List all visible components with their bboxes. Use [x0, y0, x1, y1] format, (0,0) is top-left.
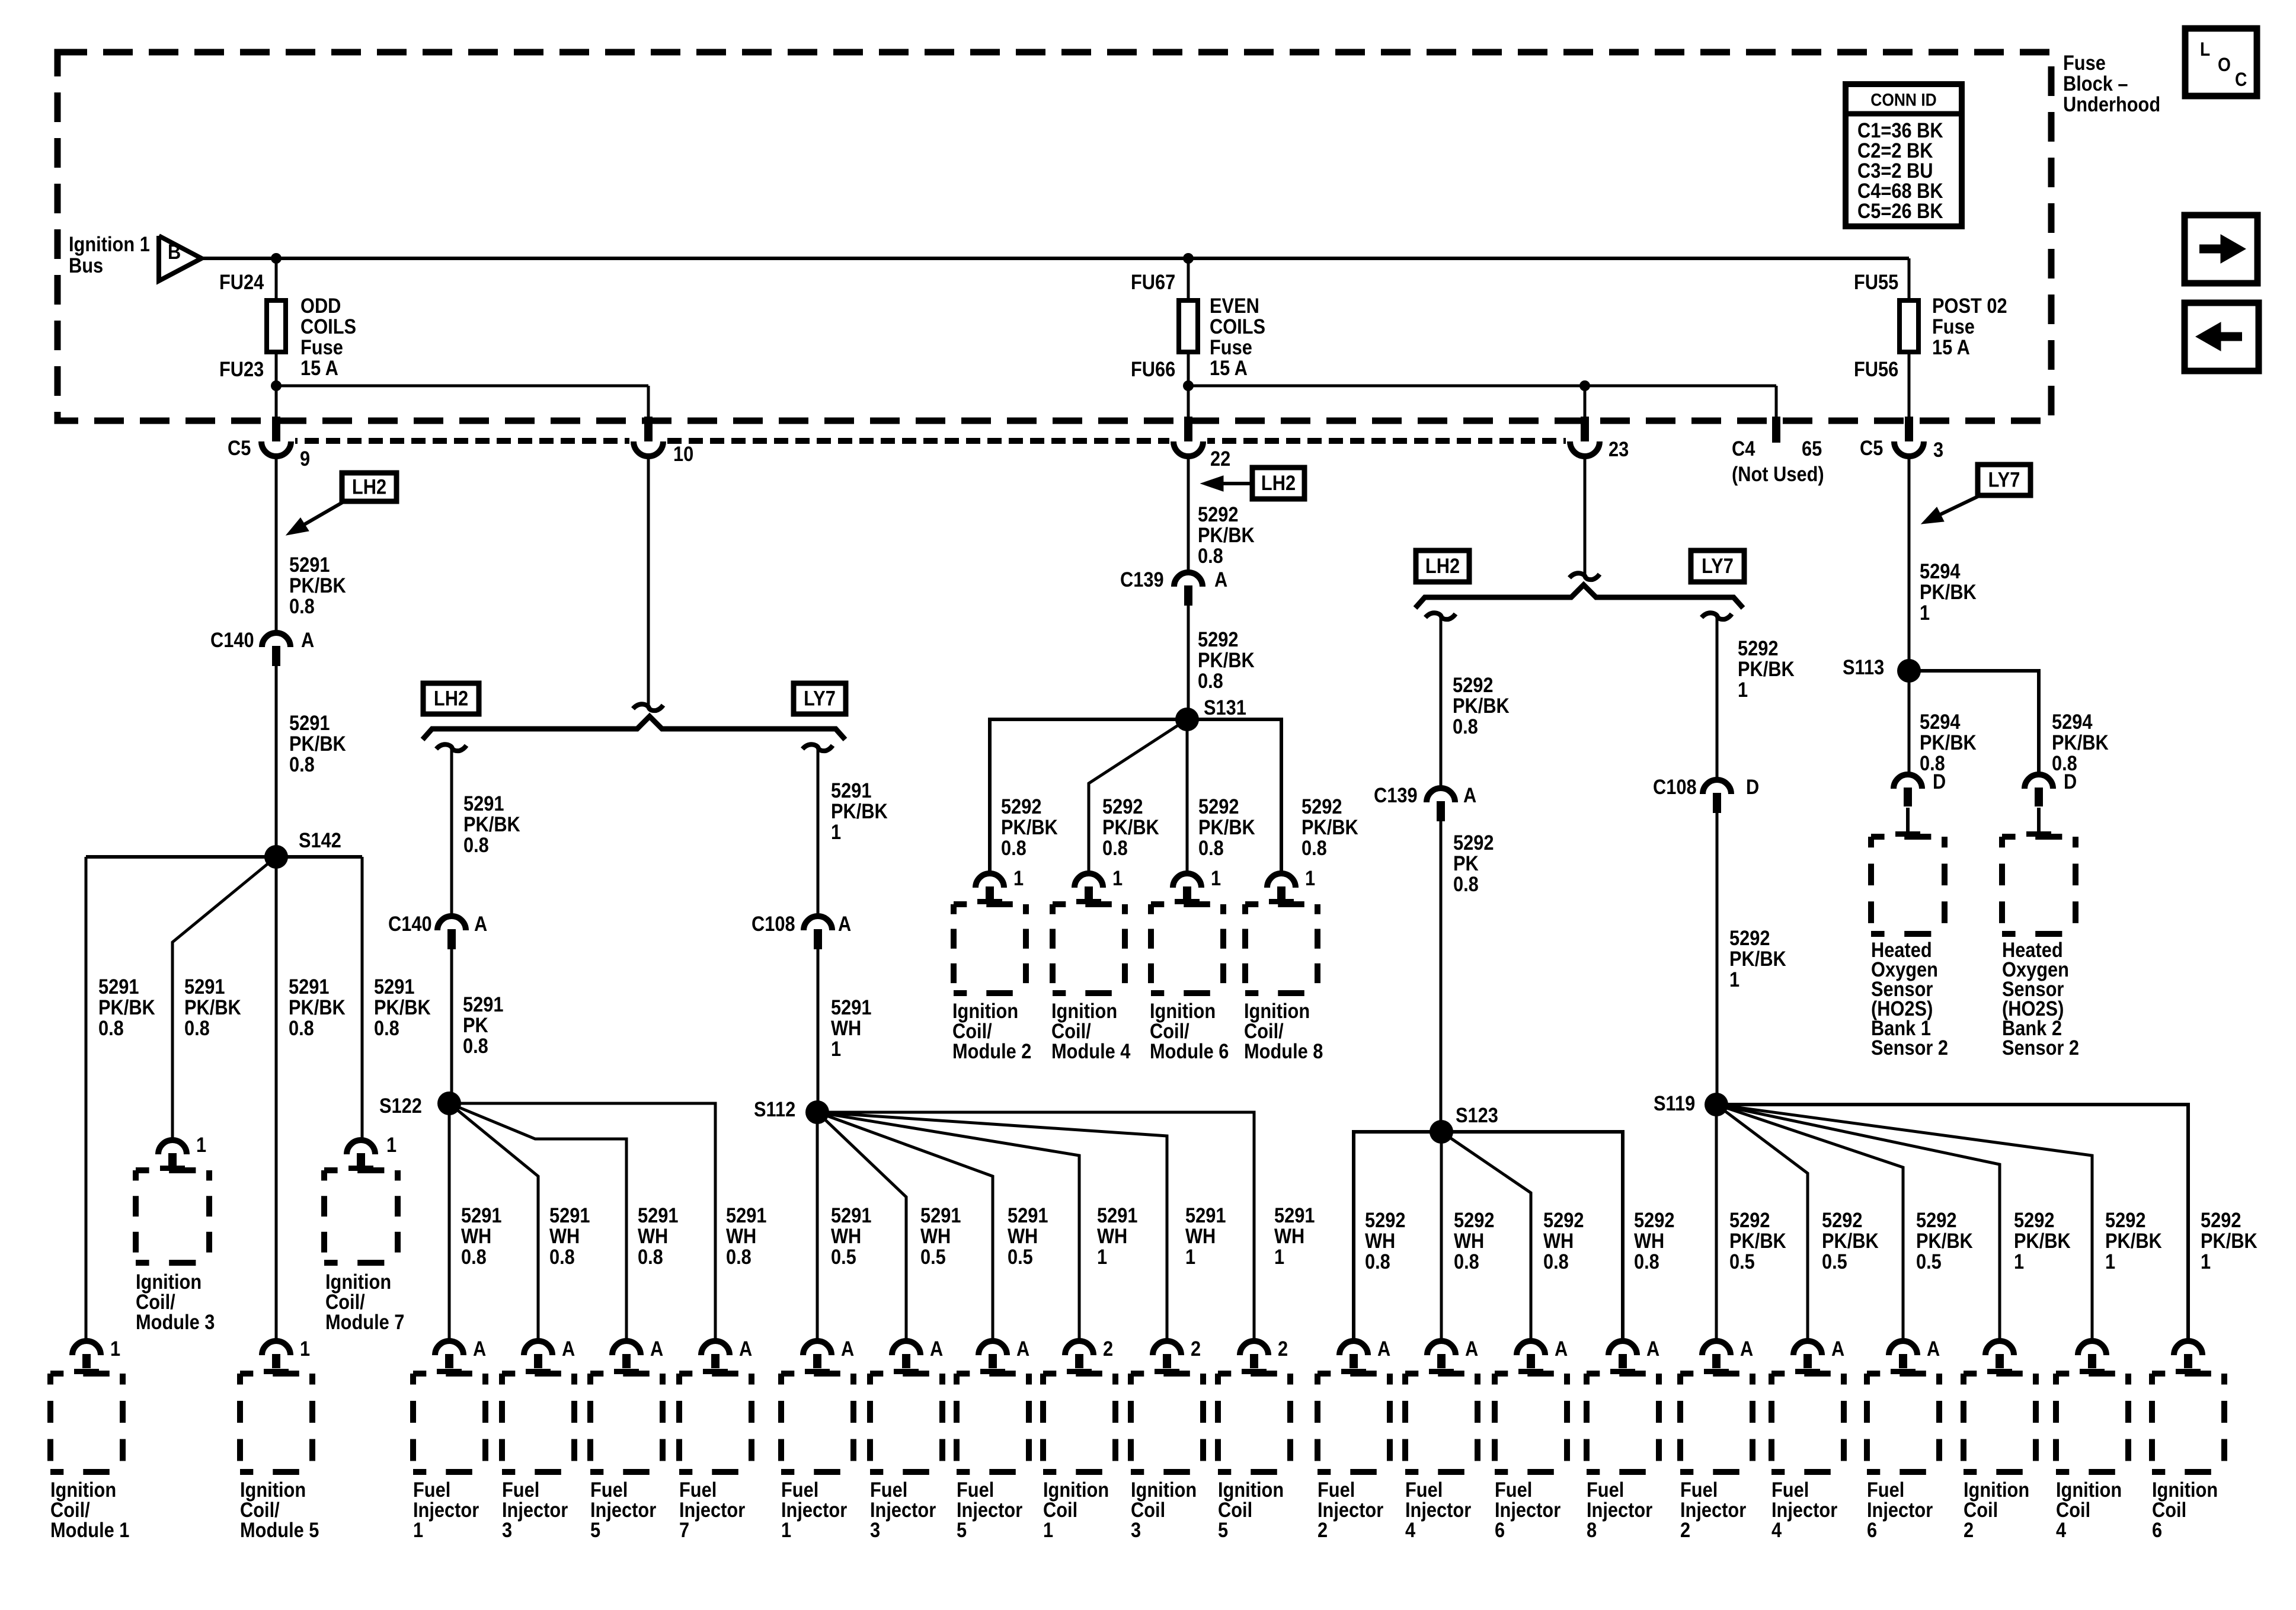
svg-text:1: 1	[1274, 1245, 1284, 1268]
svg-text:1: 1	[110, 1337, 120, 1360]
svg-text:5292: 5292	[2014, 1208, 2054, 1231]
fuse ODD COILS 15A	[267, 300, 286, 352]
svg-text:1: 1	[1097, 1245, 1107, 1268]
svg-text:5292: 5292	[1729, 926, 1770, 949]
wire 5294 PK/BK pin3 to S113	[1908, 456, 1911, 671]
svg-text:6: 6	[1495, 1518, 1505, 1541]
svg-text:C140: C140	[210, 628, 254, 651]
connector Ignition Coil/Module 2 pin 1	[976, 873, 1004, 888]
svg-text:7: 7	[679, 1518, 689, 1541]
box Fuel Injector 5	[957, 1371, 1029, 1377]
svg-text:PK/BK: PK/BK	[1920, 731, 1977, 754]
svg-text:WH: WH	[1543, 1229, 1574, 1252]
connector Fuel Injector 5 pin A	[978, 1341, 1007, 1355]
wires S123 fanout to fuel injectors 2,4,6,8	[1354, 1132, 1441, 1341]
connector Fuel Injector 8 pin A	[1609, 1341, 1637, 1355]
break curl LH2 branch start	[1425, 613, 1456, 619]
svg-text:0.8: 0.8	[289, 1016, 314, 1039]
svg-text:23: 23	[1609, 437, 1629, 460]
svg-text:65: 65	[1802, 437, 1822, 460]
svg-text:0.5: 0.5	[1729, 1250, 1755, 1273]
svg-text:1: 1	[2105, 1250, 2115, 1273]
svg-text:5291: 5291	[374, 975, 414, 998]
box Fuel Injector 1	[413, 1371, 485, 1377]
svg-text:PK/BK: PK/BK	[1302, 815, 1358, 838]
svg-text:WH: WH	[1008, 1224, 1038, 1247]
svg-text:C5: C5	[228, 436, 251, 459]
arrow LY7 to wire	[1937, 495, 1980, 516]
svg-text:5291: 5291	[1008, 1204, 1048, 1227]
svg-text:C: C	[2235, 69, 2247, 90]
junction pin 23 tap	[1579, 380, 1590, 391]
svg-text:0.8: 0.8	[461, 1245, 487, 1268]
svg-text:2: 2	[1680, 1518, 1690, 1541]
svg-text:6: 6	[1867, 1518, 1877, 1541]
svg-text:Sensor 2: Sensor 2	[1871, 1036, 1948, 1059]
svg-text:4: 4	[1771, 1518, 1782, 1541]
box Fuel Injector 7	[679, 1371, 752, 1377]
box Ignition Coil 2	[1964, 1371, 2036, 1377]
svg-text:A: A	[474, 912, 487, 935]
svg-text:5294: 5294	[1920, 559, 1961, 582]
box Ignition Coil/Module 7	[324, 1167, 398, 1173]
svg-text:1: 1	[196, 1133, 206, 1156]
svg-text:PK/BK: PK/BK	[98, 996, 155, 1019]
svg-text:PK/BK: PK/BK	[184, 996, 241, 1019]
svg-text:5291: 5291	[98, 975, 139, 998]
connector Ignition Coil 4 pin none	[2078, 1341, 2106, 1355]
svg-text:6: 6	[2152, 1518, 2162, 1541]
svg-text:C5=26 BK: C5=26 BK	[1857, 199, 1943, 222]
svg-text:1: 1	[1043, 1518, 1053, 1541]
connector Ignition Coil 3 pin 2	[1153, 1341, 1181, 1355]
svg-text:5292: 5292	[1198, 628, 1238, 651]
svg-text:5292: 5292	[1822, 1208, 1862, 1231]
svg-text:5291: 5291	[726, 1204, 766, 1227]
box Fuel Injector 6	[1495, 1371, 1567, 1377]
svg-text:WH: WH	[1634, 1229, 1664, 1252]
svg-text:Module 3: Module 3	[136, 1310, 215, 1333]
svg-text:FU55: FU55	[1854, 270, 1898, 293]
svg-text:0.8: 0.8	[638, 1245, 663, 1268]
svg-text:POST 02: POST 02	[1932, 294, 2007, 317]
svg-text:1: 1	[413, 1518, 423, 1541]
fuse EVEN COILS 15A	[1179, 300, 1198, 352]
svg-text:A: A	[1214, 568, 1227, 591]
svg-text:5291: 5291	[549, 1204, 590, 1227]
wire FU23 to connector C5 pin 9	[275, 386, 278, 422]
wires S119 fanout to injectors 2,4,6 and coils 2,4,6	[1715, 1105, 1718, 1341]
LOC legend box	[2185, 28, 2257, 96]
connector Fuel Injector 1 pin A	[803, 1341, 832, 1355]
svg-text:C139: C139	[1374, 783, 1418, 806]
wire 5291 pin10 down to split	[647, 456, 650, 706]
tag LH2 engine callout	[342, 473, 396, 501]
fuse POST 02 15A	[1900, 300, 1918, 352]
connector Ignition Coil/Module 1 pin 1	[72, 1341, 101, 1355]
connector Ignition Coil/Module 6 pin 1	[1173, 873, 1201, 888]
svg-text:5292: 5292	[1916, 1208, 1956, 1231]
box Fuel Injector 6	[1867, 1371, 1939, 1377]
svg-text:C5: C5	[1860, 436, 1883, 459]
svg-text:Bus: Bus	[69, 254, 103, 277]
break curl feeding harness split 1	[633, 704, 663, 710]
svg-text:0.8: 0.8	[1454, 1250, 1479, 1273]
svg-text:WH: WH	[920, 1224, 951, 1247]
svg-text:0.8: 0.8	[726, 1245, 752, 1268]
svg-text:1: 1	[831, 820, 841, 843]
svg-text:Module 5: Module 5	[240, 1518, 319, 1541]
fuse block underhood dashed boundary	[57, 52, 2051, 421]
svg-text:5292: 5292	[1543, 1208, 1584, 1231]
svg-text:5291: 5291	[920, 1204, 961, 1227]
connector Fuel Injector 6 pin A	[1517, 1341, 1545, 1355]
svg-text:Fuse: Fuse	[2063, 51, 2106, 74]
svg-text:0.8: 0.8	[289, 594, 315, 617]
svg-text:A: A	[1740, 1337, 1753, 1360]
svg-text:PK/BK: PK/BK	[374, 996, 431, 1019]
box Ignition Coil 5	[1218, 1371, 1290, 1377]
connector Fuel Injector 3 pin A	[524, 1341, 552, 1355]
connector Fuel Injector 3 pin A	[892, 1341, 920, 1355]
connector Ignition Coil 5 pin 2	[1240, 1341, 1268, 1355]
wire 5292 PK/BK to C139	[1440, 616, 1443, 788]
box Ignition Coil/Module 5	[240, 1371, 312, 1377]
svg-text:S119: S119	[1654, 1092, 1695, 1115]
svg-text:5291: 5291	[831, 1204, 871, 1227]
svg-text:PK/BK: PK/BK	[463, 812, 520, 836]
svg-text:PK/BK: PK/BK	[1920, 580, 1977, 603]
box Ignition Coil/Module 2	[954, 901, 1026, 907]
svg-text:5291: 5291	[831, 996, 871, 1019]
connector Fuel Injector 4 pin A	[1793, 1341, 1822, 1355]
svg-text:2: 2	[1278, 1337, 1288, 1360]
harness split brace LH2/LY7	[423, 716, 845, 740]
splice S142	[264, 845, 288, 869]
svg-text:A: A	[838, 912, 851, 935]
svg-text:1: 1	[300, 1337, 310, 1360]
svg-text:PK/BK: PK/BK	[1916, 1229, 1973, 1252]
svg-text:FU23: FU23	[219, 357, 264, 380]
svg-text:FU66: FU66	[1131, 357, 1175, 380]
svg-text:2: 2	[1103, 1337, 1113, 1360]
wire 5291 PK/BK pin9 to S142	[275, 456, 278, 857]
svg-text:5292: 5292	[1102, 795, 1143, 818]
wire FU66 feed	[1188, 385, 1776, 388]
connector Ignition Coil/Module 7 pin 1	[347, 1140, 375, 1154]
svg-text:S142: S142	[299, 828, 341, 852]
box Fuel Injector 2	[1680, 1371, 1753, 1377]
svg-text:5292: 5292	[1453, 673, 1493, 696]
svg-text:WH: WH	[1274, 1224, 1304, 1247]
svg-text:2: 2	[1318, 1518, 1328, 1541]
svg-text:COILS: COILS	[1210, 315, 1265, 338]
box Ignition Coil/Module 8	[1245, 901, 1318, 907]
svg-text:A: A	[562, 1337, 575, 1360]
svg-text:0.8: 0.8	[1198, 836, 1224, 859]
svg-text:5294: 5294	[1920, 710, 1961, 733]
svg-text:D: D	[1933, 770, 1946, 793]
svg-text:5291: 5291	[289, 975, 329, 998]
svg-text:C140: C140	[388, 912, 432, 935]
box Fuel Injector 8	[1587, 1371, 1659, 1377]
svg-text:LH2: LH2	[352, 475, 386, 498]
svg-text:5291: 5291	[463, 993, 503, 1016]
svg-text:8: 8	[1587, 1518, 1597, 1541]
svg-text:WH: WH	[549, 1224, 580, 1247]
svg-text:0.8: 0.8	[1453, 715, 1478, 738]
box Ignition Coil 1	[1043, 1371, 1115, 1377]
svg-text:A: A	[841, 1337, 854, 1360]
svg-text:(Not Used): (Not Used)	[1732, 462, 1824, 485]
svg-text:5292: 5292	[1001, 795, 1041, 818]
break curl LY7 branch start	[1702, 613, 1732, 619]
svg-text:O: O	[2218, 55, 2231, 75]
wires S122 fanout to fuel injectors 1,3,5,7	[448, 1103, 451, 1341]
svg-text:PK/BK: PK/BK	[289, 732, 346, 755]
connector C140 pin A inline	[262, 633, 290, 647]
connector Fuel Injector 7 pin A	[701, 1341, 730, 1355]
svg-text:1: 1	[831, 1037, 841, 1060]
svg-text:PK/BK: PK/BK	[2201, 1229, 2257, 1252]
connector C5 pin 3	[1905, 417, 1913, 443]
svg-text:5: 5	[1218, 1518, 1228, 1541]
svg-text:2: 2	[1191, 1337, 1201, 1360]
svg-text:0.8: 0.8	[184, 1016, 210, 1039]
svg-text:A: A	[1016, 1337, 1029, 1360]
wire 5292 PK/BK to S131	[1187, 606, 1190, 719]
svg-text:Block –: Block –	[2063, 72, 2128, 95]
svg-text:0.8: 0.8	[549, 1245, 575, 1268]
svg-text:WH: WH	[831, 1016, 861, 1039]
break curl feeding harness split 2	[1569, 573, 1600, 580]
svg-text:Fuse: Fuse	[300, 335, 343, 359]
junction FU23 node	[271, 380, 282, 391]
box Ignition Coil 4	[2056, 1371, 2128, 1377]
svg-text:PK/BK: PK/BK	[1738, 657, 1795, 680]
connector C139 pin A inline	[1427, 788, 1455, 802]
box Fuel Injector 2	[1318, 1371, 1390, 1377]
svg-text:3: 3	[870, 1518, 880, 1541]
svg-text:5292: 5292	[1365, 1208, 1405, 1231]
svg-text:5294: 5294	[2052, 710, 2093, 733]
junction FU24 tap	[271, 253, 282, 264]
svg-text:0.8: 0.8	[463, 833, 489, 856]
box Heated Oxygen Sensor Bank 2 Sensor 2	[2002, 834, 2076, 840]
svg-text:5: 5	[590, 1518, 600, 1541]
svg-text:WH: WH	[1185, 1224, 1216, 1247]
svg-text:3: 3	[1933, 438, 1943, 461]
svg-text:LH2: LH2	[1261, 471, 1296, 494]
tag LY7 branch	[794, 683, 846, 714]
svg-text:0.8: 0.8	[463, 1034, 488, 1057]
svg-text:A: A	[739, 1337, 752, 1360]
wire 5291 WH 1 to S112	[817, 949, 820, 1112]
box Fuel Injector 4	[1771, 1371, 1844, 1377]
svg-text:5291: 5291	[638, 1204, 678, 1227]
connector C140 pin A inline	[437, 916, 466, 930]
legend arrow left	[2185, 303, 2259, 371]
svg-text:FU56: FU56	[1854, 357, 1898, 380]
junction FU66 node	[1183, 380, 1194, 391]
svg-text:Underhood: Underhood	[2063, 92, 2160, 116]
svg-text:Ignition 1: Ignition 1	[69, 232, 150, 255]
svg-text:0.8: 0.8	[1543, 1250, 1569, 1273]
wire FU23 feed to pin 10	[276, 385, 648, 388]
svg-text:S122: S122	[379, 1094, 422, 1117]
box Ignition Coil/Module 1	[50, 1371, 123, 1377]
svg-text:A: A	[1831, 1337, 1844, 1360]
svg-text:WH: WH	[1097, 1224, 1127, 1247]
junction FU67 tap	[1183, 253, 1194, 264]
svg-text:0.8: 0.8	[1198, 669, 1223, 692]
svg-text:WH: WH	[831, 1224, 861, 1247]
wires S142 fanout to ignition coil modules	[86, 855, 362, 859]
svg-text:PK/BK: PK/BK	[1198, 815, 1255, 838]
wires S113 fanout to HO2S sensors	[1908, 671, 1911, 776]
wire 5292 PK to S123	[1440, 821, 1443, 1132]
splice S119	[1705, 1093, 1728, 1116]
svg-text:FU24: FU24	[219, 270, 264, 293]
box Ignition Coil 3	[1131, 1371, 1203, 1377]
svg-text:0.8: 0.8	[1102, 836, 1128, 859]
svg-text:C4: C4	[1732, 437, 1755, 460]
svg-text:PK/BK: PK/BK	[1729, 947, 1786, 970]
svg-text:PK/BK: PK/BK	[1453, 694, 1510, 717]
svg-text:PK: PK	[1453, 852, 1479, 875]
svg-text:EVEN: EVEN	[1210, 294, 1259, 317]
CONN ID table	[1846, 84, 1962, 226]
tag LH2 branch	[1416, 550, 1469, 582]
svg-text:1: 1	[386, 1133, 396, 1156]
wire FU66 to connector pin 22	[1187, 386, 1190, 422]
arrow LH2 left to wire	[1222, 482, 1252, 485]
svg-text:4: 4	[2056, 1518, 2067, 1541]
svg-text:LY7: LY7	[1702, 554, 1734, 577]
svg-text:FU67: FU67	[1131, 270, 1175, 293]
wire to connector pin 10	[647, 386, 650, 422]
svg-text:0.8: 0.8	[98, 1016, 124, 1039]
svg-text:3: 3	[1131, 1518, 1141, 1541]
svg-text:L: L	[2200, 39, 2210, 60]
connector Fuel Injector 2 pin A	[1339, 1341, 1368, 1355]
svg-text:Module 7: Module 7	[325, 1310, 404, 1333]
svg-text:Module 2: Module 2	[952, 1039, 1031, 1062]
svg-text:WH: WH	[726, 1224, 756, 1247]
break curl LH2 branch start	[436, 744, 466, 751]
svg-text:CONN ID: CONN ID	[1870, 89, 1936, 110]
svg-text:1: 1	[781, 1518, 791, 1541]
svg-text:1: 1	[1738, 678, 1748, 701]
svg-text:Fuse: Fuse	[1932, 315, 1975, 338]
svg-text:5292: 5292	[1729, 1208, 1770, 1231]
svg-text:0.8: 0.8	[374, 1016, 399, 1039]
svg-text:5292: 5292	[1302, 795, 1342, 818]
svg-text:A: A	[650, 1337, 663, 1360]
connector C5 boundary dotted line	[262, 438, 1571, 444]
svg-text:5291: 5291	[463, 792, 504, 815]
svg-text:PK/BK: PK/BK	[1198, 648, 1255, 671]
svg-text:PK/BK: PK/BK	[831, 799, 888, 822]
svg-text:3: 3	[502, 1518, 512, 1541]
svg-text:5292: 5292	[1454, 1208, 1494, 1231]
connector HO2S Bank 1 pin D	[1894, 774, 1922, 789]
splice S113	[1897, 659, 1921, 683]
svg-text:Module 4: Module 4	[1051, 1039, 1131, 1062]
svg-text:D: D	[1746, 775, 1759, 798]
svg-text:5291: 5291	[184, 975, 225, 998]
node B Ignition 1 Bus	[159, 236, 202, 281]
svg-text:LY7: LY7	[804, 687, 836, 710]
svg-text:WH: WH	[1365, 1229, 1395, 1252]
svg-text:0.8: 0.8	[1365, 1250, 1390, 1273]
svg-text:A: A	[1377, 1337, 1390, 1360]
svg-text:9: 9	[300, 447, 310, 470]
svg-text:15 A: 15 A	[300, 356, 338, 379]
svg-text:1: 1	[2014, 1250, 2024, 1273]
svg-text:1: 1	[1013, 866, 1024, 889]
wire FU55 from bus	[1908, 258, 1911, 386]
svg-text:WH: WH	[638, 1224, 668, 1247]
connector Fuel Injector 2 pin A	[1702, 1341, 1731, 1355]
svg-text:C139: C139	[1120, 568, 1164, 591]
svg-text:A: A	[1555, 1337, 1568, 1360]
connector C5 pin 22	[1169, 437, 1207, 446]
box Fuel Injector 3	[870, 1371, 942, 1377]
svg-text:PK/BK: PK/BK	[2014, 1229, 2071, 1252]
svg-text:ODD: ODD	[300, 294, 341, 317]
connector Ignition Coil/Module 4 pin 1	[1075, 873, 1103, 888]
connector Fuel Injector 6 pin A	[1889, 1341, 1917, 1355]
svg-text:PK/BK: PK/BK	[289, 996, 346, 1019]
svg-text:1: 1	[1920, 601, 1930, 624]
wire FU56 to connector C5 pin 3	[1908, 352, 1911, 422]
svg-text:1: 1	[1305, 866, 1315, 889]
svg-text:5291: 5291	[831, 779, 871, 802]
arrow LH2 to wire	[299, 501, 344, 527]
connector Ignition Coil/Module 8 pin 1	[1267, 873, 1296, 888]
connector C5 pin 10	[629, 437, 667, 446]
svg-text:0.5: 0.5	[831, 1245, 856, 1268]
svg-text:S112: S112	[754, 1097, 795, 1121]
svg-text:WH: WH	[1454, 1229, 1484, 1252]
svg-text:A: A	[1927, 1337, 1940, 1360]
box Ignition Coil/Module 6	[1151, 901, 1223, 907]
svg-text:5292: 5292	[2105, 1208, 2145, 1231]
svg-text:0.8: 0.8	[1198, 544, 1223, 567]
svg-text:15 A: 15 A	[1210, 356, 1248, 379]
wire FU67 to FU66	[1187, 258, 1190, 386]
svg-text:5291: 5291	[1274, 1204, 1315, 1227]
splice S131	[1175, 708, 1199, 731]
connector C108 pin D inline	[1703, 780, 1731, 794]
svg-text:PK: PK	[463, 1013, 488, 1036]
svg-text:5292: 5292	[1738, 636, 1778, 660]
svg-text:Module 1: Module 1	[50, 1518, 129, 1541]
svg-text:5291: 5291	[1097, 1204, 1137, 1227]
svg-text:A: A	[473, 1337, 486, 1360]
connector Ignition Coil/Module 5 pin 1	[262, 1341, 290, 1355]
box Ignition Coil/Module 4	[1053, 901, 1125, 907]
connector Ignition Coil 2 pin none	[1985, 1341, 2014, 1355]
connector Fuel Injector 5 pin A	[612, 1341, 641, 1355]
splice S122	[437, 1092, 461, 1115]
splice S112	[805, 1100, 829, 1124]
connector HO2S Bank 2 pin D	[2025, 774, 2053, 789]
connector C139 pin A inline	[1174, 572, 1203, 587]
box Fuel Injector 5	[590, 1371, 663, 1377]
connector Fuel Injector 1 pin A	[435, 1341, 463, 1355]
